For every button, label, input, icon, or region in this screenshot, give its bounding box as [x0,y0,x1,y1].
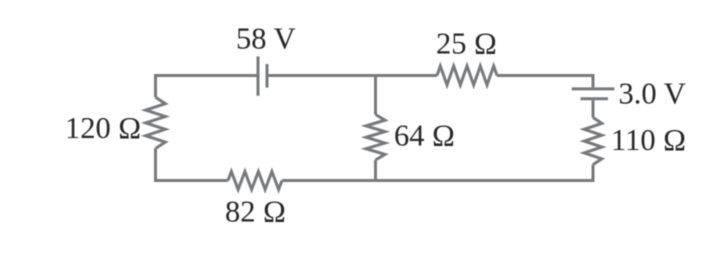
wire right upper [592,100,595,117]
wire bottom-left [156,149,229,181]
battery U2 3.0 V short plate [581,97,609,100]
battery U1 58 V short plate [266,64,269,88]
svg-text:3.0 V: 3.0 V [619,76,686,110]
svg-text:110 Ω: 110 Ω [611,123,686,157]
svg-text:120 Ω: 120 Ω [65,111,141,145]
svg-text:58 V: 58 V [236,22,296,56]
resistor R120 120 ohm zigzag [146,97,166,148]
battery U1 58 V long plate [257,56,260,95]
wire middle branch upper [374,76,377,115]
svg-text:82 Ω: 82 Ω [225,195,286,229]
resistor R82 82 ohm zigzag [228,172,282,190]
resistor R64 64 ohm zigzag [366,115,385,161]
resistor R25 25 ohm zigzag [437,66,497,85]
wire right lower + bottom right [282,165,593,181]
wire top-middle [268,74,437,77]
svg-text:64 Ω: 64 Ω [394,118,455,152]
resistor R110 110 ohm zigzag [584,118,602,165]
svg-text:25 Ω: 25 Ω [436,27,497,61]
battery U2 3.0 V long plate [572,87,615,90]
wire top-right [497,76,593,88]
wire top-left [156,76,258,98]
wire middle branch lower [374,160,377,181]
